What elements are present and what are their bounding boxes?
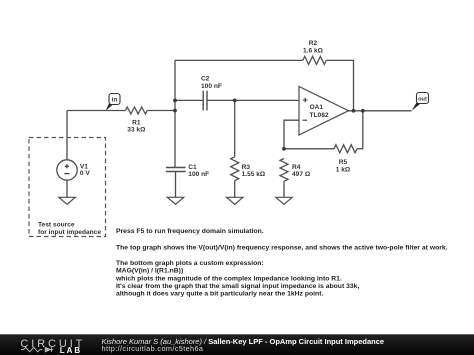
svg-text:although it does vary quite a: although it does vary quite a bit partic… bbox=[116, 291, 323, 298]
svg-text:TL082: TL082 bbox=[310, 112, 329, 119]
svg-text:0 V: 0 V bbox=[80, 170, 90, 177]
svg-text:1.6 kΩ: 1.6 kΩ bbox=[303, 47, 324, 54]
svg-text:C2: C2 bbox=[201, 76, 210, 83]
svg-text:1.55 kΩ: 1.55 kΩ bbox=[242, 171, 266, 178]
svg-text:in: in bbox=[112, 97, 118, 104]
svg-text:C1: C1 bbox=[188, 164, 197, 171]
svg-text:The bottom graph plots a custo: The bottom graph plots a custom expressi… bbox=[116, 260, 264, 267]
svg-text:100 nF: 100 nF bbox=[188, 171, 209, 178]
svg-text:LAB: LAB bbox=[60, 346, 82, 355]
svg-text:R4: R4 bbox=[292, 164, 301, 171]
svg-text:33 kΩ: 33 kΩ bbox=[127, 127, 146, 134]
svg-text:for input impedance: for input impedance bbox=[38, 229, 101, 236]
svg-text:http://circuitlab.com/c5teh6a: http://circuitlab.com/c5teh6a bbox=[102, 344, 204, 353]
svg-text:It's clear from the graph that: It's clear from the graph that the small… bbox=[116, 283, 359, 290]
svg-text:R3: R3 bbox=[242, 164, 251, 171]
svg-text:which plots the magnitude of t: which plots the magnitude of the complex… bbox=[115, 275, 342, 282]
svg-text:MAG(V(in) / I(R1.nB)): MAG(V(in) / I(R1.nB)) bbox=[116, 268, 183, 275]
svg-text:1 kΩ: 1 kΩ bbox=[336, 166, 351, 173]
svg-text:out: out bbox=[418, 97, 427, 103]
svg-text:100 nF: 100 nF bbox=[201, 83, 222, 90]
svg-text:Test source: Test source bbox=[38, 221, 75, 228]
svg-text:R1: R1 bbox=[132, 119, 141, 126]
svg-text:The top graph shows the V(out): The top graph shows the V(out)/V(in) fre… bbox=[116, 245, 448, 252]
svg-text:Press F5 to run frequency doma: Press F5 to run frequency domain simulat… bbox=[116, 228, 264, 235]
svg-text:497 Ω: 497 Ω bbox=[292, 171, 311, 178]
svg-text:OA1: OA1 bbox=[310, 104, 324, 111]
svg-text:R2: R2 bbox=[309, 40, 318, 47]
svg-text:R5: R5 bbox=[339, 159, 348, 166]
